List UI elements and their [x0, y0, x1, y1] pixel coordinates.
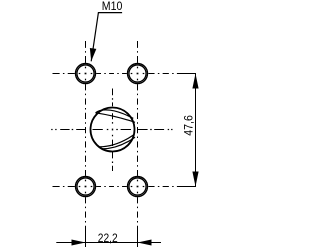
centerline vertical left column (between holes) [85, 84, 87, 176]
hole crosshair dots BR [131, 180, 145, 194]
dimension line vertical 47,6 [195, 74, 197, 187]
hole crosshair dots TL [79, 67, 93, 81]
centerline horizontal central circle [51, 129, 172, 131]
svg-text:M10: M10 [102, 1, 123, 13]
dim arrow down [192, 172, 198, 187]
hole top-left outer [76, 64, 96, 84]
centerline horizontal top row (left of TL hole) [53, 73, 75, 75]
centerline vertical left column (below BL hole) + extension [85, 197, 87, 230]
hole top-right inner [129, 65, 146, 82]
svg-text:47,6: 47,6 [182, 115, 195, 136]
hole bottom-right inner [129, 178, 146, 195]
dim arrow left (right side) [138, 240, 152, 246]
helix stripe top upper arc [96, 110, 134, 119]
centerline vertical right column (between holes) [137, 84, 139, 176]
centerline horizontal bottom row (left of BL hole) [53, 186, 75, 188]
helix stripe top lower arc [96, 113, 136, 123]
dimension line horizontal 22,2 [56, 242, 161, 244]
svg-text:22,2: 22,2 [98, 232, 118, 245]
centerline horizontal bottom row (right of BR hole) + extension to dimension [148, 186, 178, 188]
leader line M10 [91, 13, 122, 62]
central bore circle [91, 108, 135, 152]
centerline horizontal top row (between holes) [96, 73, 127, 75]
centerline vertical left column (above TL hole) [85, 41, 87, 63]
centerline horizontal bottom row (between holes) [96, 186, 127, 188]
helix stripe bottom upper arc [99, 135, 134, 147]
hole crosshair dots BL [79, 180, 93, 194]
hole top-right outer [128, 64, 148, 84]
hole bottom-left outer [76, 177, 96, 197]
hole bottom-left inner [77, 178, 94, 195]
centerline horizontal top row (right of TR hole) + extension to dimension [148, 73, 178, 75]
centerline vertical central circle [112, 89, 114, 172]
hole top-left inner [77, 65, 94, 82]
hole crosshair dots TR [131, 67, 145, 81]
leader arrowhead [90, 48, 97, 61]
helix stripe bottom lower arc [101, 137, 135, 149]
centerline vertical right column (below BR hole) + extension [137, 197, 139, 230]
dim arrow up [192, 74, 198, 89]
dim arrow right (left side) [72, 240, 86, 246]
centerline vertical right column (above TR hole) [137, 41, 139, 63]
hole bottom-right outer [128, 177, 148, 197]
